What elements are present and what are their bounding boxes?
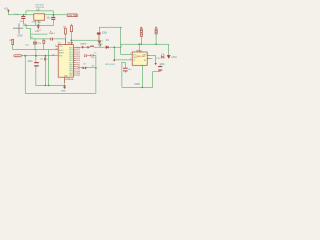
svg-text:R4: R4 (155, 27, 157, 29)
svg-text:22p: 22p (38, 43, 41, 45)
svg-text:+5V: +5V (4, 8, 9, 10)
svg-text:PB5: PB5 (76, 75, 80, 77)
svg-text:100n: 100n (102, 31, 108, 34)
svg-text:GND: GND (17, 35, 23, 38)
svg-text:16MHz: 16MHz (80, 43, 86, 45)
svg-text:A2: A2 (92, 65, 94, 68)
svg-text:100n: 100n (160, 63, 166, 66)
svg-text:C7: C7 (94, 52, 96, 54)
svg-text:C8: C8 (83, 64, 85, 66)
svg-text:PC6: PC6 (59, 46, 62, 48)
svg-text:+3V3: +3V3 (171, 56, 177, 59)
svg-text:X1: X1 (31, 37, 33, 39)
svg-text:AVCC: AVCC (59, 49, 64, 52)
svg-text:NCP1117: NCP1117 (36, 4, 45, 6)
svg-text:+5V_REG: +5V_REG (68, 15, 79, 17)
svg-text:PIO: PIO (156, 58, 160, 60)
svg-text:GND: GND (61, 90, 66, 92)
svg-text:2: 2 (130, 58, 131, 60)
svg-text:PB5: PB5 (69, 75, 72, 77)
svg-text:1: 1 (130, 53, 131, 55)
svg-text:ATMEGA: ATMEGA (66, 78, 75, 81)
svg-text:GND: GND (98, 44, 103, 46)
svg-text:100n: 100n (27, 60, 33, 63)
svg-text:10u: 10u (46, 16, 51, 19)
svg-text:XTAL1: XTAL1 (49, 32, 56, 35)
svg-text:ADJ: ADJ (37, 21, 41, 24)
svg-text:AREF: AREF (59, 52, 64, 55)
svg-text:GPS_RXD: GPS_RXD (105, 64, 115, 66)
svg-text:GND: GND (37, 30, 42, 32)
svg-text:20: 20 (56, 49, 58, 51)
svg-text:RESET: RESET (14, 56, 22, 58)
svg-text:GND: GND (135, 83, 141, 86)
svg-text:100n: 100n (20, 21, 24, 23)
svg-text:1u: 1u (46, 59, 48, 61)
svg-text:1: 1 (55, 45, 56, 47)
svg-text:GND: GND (32, 22, 37, 24)
svg-text:R3: R3 (140, 27, 142, 29)
svg-text:29: 29 (52, 54, 54, 56)
svg-text:5: 5 (140, 50, 141, 52)
svg-text:MEGA: MEGA (67, 42, 73, 45)
